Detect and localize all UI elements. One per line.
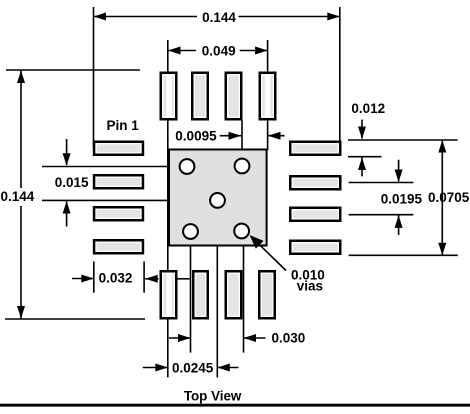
via BL stem line: [190, 232, 192, 353]
via C: [210, 193, 225, 208]
dim 0.144 left reference line top: [6, 69, 140, 71]
via TL leader line: [42, 166, 183, 168]
svg-text:vias: vias: [297, 279, 323, 294]
via BR stem line: [243, 233, 245, 353]
pad L2: [94, 175, 143, 188]
pad L1: [94, 142, 143, 155]
svg-text:Top View: Top View: [184, 388, 242, 403]
dim 0.0195 up arrow: [398, 215, 400, 235]
pad T4 white stripe: [265, 74, 270, 118]
pad R4: [290, 241, 340, 254]
dim 0.0245 right-pointing arrow: [143, 367, 168, 369]
dim 0.144 top left extension line: [93, 7, 95, 147]
pad T1: [161, 73, 177, 120]
svg-text:0.0095: 0.0095: [175, 129, 217, 144]
pad B1: [161, 271, 177, 318]
dim 0.0705 dimension line: [441, 141, 443, 255]
via BL: [183, 224, 198, 239]
pad T3: [226, 73, 242, 120]
pad T1 white stripe: [166, 74, 171, 118]
dim 0.0245 left-pointing arrow: [217, 367, 238, 369]
pad B2: [193, 271, 208, 318]
center stem line: [216, 220, 218, 378]
construction line through T4 column (x=267.6): [267, 40, 269, 150]
svg-text:0.144: 0.144: [1, 189, 35, 204]
dim 0.0705 bottom reference line: [349, 254, 458, 256]
svg-text:0.030: 0.030: [272, 330, 306, 345]
thermal pad (center square): [169, 150, 267, 246]
pad T4: [260, 73, 276, 120]
dim 0.0095 dimension arrows: [220, 135, 241, 137]
dim 0.032 left-pointing arrow: [145, 278, 158, 280]
dim 0.0195 bottom reference line (R3 center): [349, 214, 414, 216]
pad T2: [192, 73, 208, 120]
dim 0.012 top reference line: [348, 139, 458, 141]
dim 0.012 up arrow: [361, 158, 363, 177]
svg-text:Pin 1: Pin 1: [107, 118, 140, 133]
dim 0.012 down arrow: [361, 120, 363, 139]
via TR: [235, 159, 250, 174]
via BR: [234, 224, 249, 239]
bottom rule: [0, 404, 470, 407]
pad L3: [94, 207, 143, 220]
dim 0.015 down arrow: [66, 139, 68, 165]
svg-text:0.012: 0.012: [351, 101, 385, 116]
dim 0.030 right-pointing arrow: [169, 337, 190, 339]
dim 0.0195 top reference line (R2 center): [349, 182, 414, 184]
svg-text:0.049: 0.049: [202, 44, 236, 59]
vias leader arrow: [252, 238, 286, 271]
dim 0.0195 down arrow: [398, 160, 400, 182]
svg-text:0.015: 0.015: [55, 175, 89, 190]
dim 0.032 left extension line: [93, 261, 95, 292]
dim 0.032 right-pointing arrow: [72, 278, 94, 280]
pad B4: [259, 271, 275, 318]
pad R1: [290, 142, 340, 155]
svg-text:0.0705: 0.0705: [428, 190, 470, 205]
via TL: [180, 159, 195, 174]
pad B3: [226, 271, 242, 318]
via TR stem line: [241, 121, 243, 167]
dim 0.049 dimension line: [168, 50, 196, 52]
dim 0.030 left-pointing arrow: [244, 337, 266, 339]
dim 0.032 tail line right of pad B1: [178, 278, 190, 280]
pad R3: [290, 208, 340, 221]
dim 0.015 up arrow: [66, 202, 68, 227]
construction line through T1/B1 column (x=167.8): [167, 40, 169, 377]
pad B1 white stripe: [166, 273, 171, 318]
svg-text:0.0245: 0.0245: [172, 361, 214, 376]
pad L4: [94, 240, 143, 253]
pad R2: [290, 176, 340, 189]
svg-text:0.144: 0.144: [202, 10, 236, 25]
via C leader line: [42, 199, 202, 201]
svg-text:0.032: 0.032: [99, 270, 133, 285]
dim 0.032 right extension line: [143, 261, 145, 292]
dim 0.012 bottom reference line: [348, 156, 382, 158]
dim 0.144 top right extension line: [339, 7, 341, 141]
dim 0.144 left dimension line: [20, 71, 22, 189]
svg-text:0.0195: 0.0195: [381, 192, 423, 207]
dim 0.144 top dimension line: [94, 16, 198, 18]
dim 0.144 left reference line bottom: [5, 318, 145, 320]
